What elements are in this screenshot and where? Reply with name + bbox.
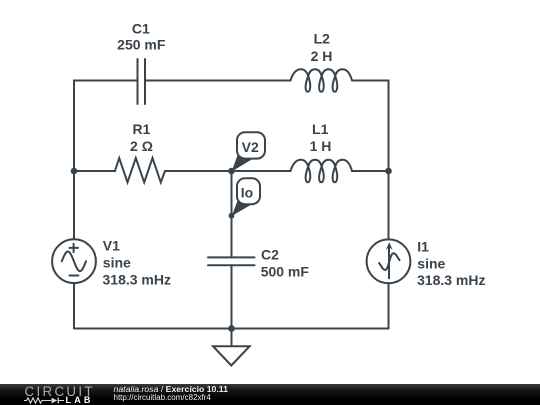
svg-text:Io: Io — [241, 184, 253, 200]
svg-text:C1: C1 — [132, 21, 150, 37]
svg-text:500 mF: 500 mF — [261, 263, 310, 279]
svg-text:I1: I1 — [417, 238, 429, 254]
svg-text:318.3 mHz: 318.3 mHz — [417, 272, 485, 288]
svg-text:250 mF: 250 mF — [117, 37, 166, 53]
svg-text:sine: sine — [103, 254, 131, 270]
svg-text:2 H: 2 H — [311, 48, 333, 64]
svg-text:318.3 mHz: 318.3 mHz — [103, 271, 171, 287]
svg-text:V2: V2 — [242, 139, 259, 155]
svg-text:L1: L1 — [312, 121, 329, 137]
svg-text:L2: L2 — [314, 31, 331, 47]
svg-text:2 Ω: 2 Ω — [130, 138, 153, 154]
svg-text:C2: C2 — [261, 247, 279, 263]
svg-text:1 H: 1 H — [310, 138, 332, 154]
svg-text:V1: V1 — [103, 237, 120, 253]
svg-text:R1: R1 — [133, 121, 151, 137]
svg-text:sine: sine — [417, 255, 445, 271]
